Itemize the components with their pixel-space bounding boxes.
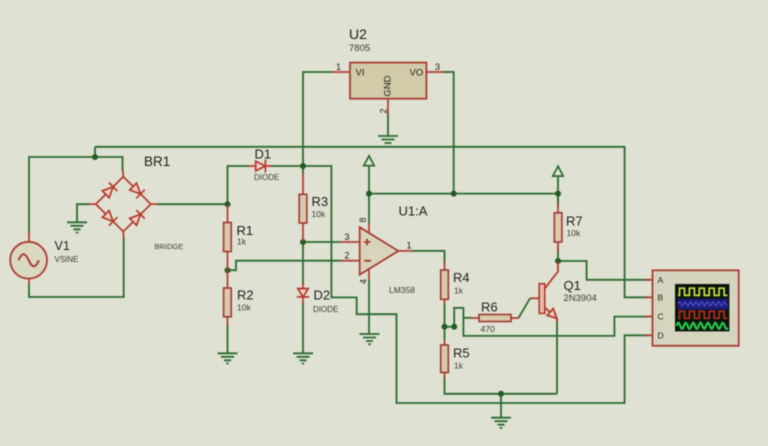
wire D rail riser [624, 335, 626, 404]
wire R3 top stub [302, 166, 304, 175]
wire ground stem bottom [500, 394, 502, 418]
diode D2 [297, 283, 309, 304]
svg-text:470: 470 [481, 324, 495, 334]
resistor R4 [441, 262, 449, 304]
wire column up to U2 VI [303, 72, 333, 166]
wire node pair link [445, 326, 455, 328]
wire to scope B pin [624, 296, 650, 298]
svg-text:BR1: BR1 [144, 154, 170, 169]
wire D1 cathode to column node [272, 165, 304, 167]
ground bottom rail [491, 418, 511, 428]
svg-text:R2: R2 [237, 288, 254, 303]
resistor R2 [224, 271, 232, 326]
resistor R7 [554, 203, 562, 252]
svg-text:2: 2 [379, 108, 389, 113]
ground D2 [293, 353, 313, 363]
svg-text:VSINE: VSINE [55, 255, 79, 264]
transistor Q1 [530, 262, 558, 323]
scope trace A yellow [678, 288, 728, 295]
wire sense step 3 [356, 313, 397, 315]
wire opamp pin8 riser [368, 194, 370, 223]
svg-text:R7: R7 [566, 213, 583, 228]
power arrow left [364, 156, 374, 166]
bridge diode top-left [101, 183, 117, 199]
wire main unregulated rail [95, 146, 625, 148]
wire bridge right to R1 node [157, 203, 228, 205]
wire hook to R6 [463, 317, 471, 319]
scope screen [675, 284, 729, 331]
node V1-rail junction [92, 154, 98, 160]
svg-text:10k: 10k [312, 209, 326, 219]
wire power arrow stem left [368, 166, 370, 194]
wire bottom D rail [396, 402, 625, 404]
node R7 power junction [555, 191, 561, 197]
wire bridge left to ground [77, 204, 89, 222]
wire bridge bottom riser [123, 238, 125, 298]
wire V1 top vertical [28, 157, 30, 236]
wire opamp output to R4 [412, 251, 445, 263]
wire U2 VO down to rail node [453, 72, 455, 194]
svg-text:VI: VI [356, 68, 365, 79]
svg-text:R5: R5 [453, 345, 470, 360]
wire D1 node to sense drop [302, 165, 331, 167]
svg-text:BRIDGE: BRIDGE [155, 242, 184, 251]
svg-text:U1:A: U1:A [399, 204, 428, 219]
wire sense step 2 [356, 297, 358, 315]
wire power rail y194 [369, 193, 558, 195]
wire hook down to C rail [462, 317, 464, 336]
wire collector node to scope A [558, 261, 650, 280]
wire R4 bottom to node [444, 303, 446, 327]
svg-text:1: 1 [336, 62, 341, 72]
svg-text:R3: R3 [312, 194, 329, 209]
wire R1 R2 node to opamp pin2 jog [228, 261, 341, 271]
svg-text:GND: GND [383, 75, 394, 96]
svg-text:DIODE: DIODE [313, 305, 338, 314]
node U2 VO rail junction [451, 191, 457, 197]
wire R2 bottom [227, 325, 229, 353]
svg-text:C: C [658, 311, 664, 321]
bridge diode top-right [129, 182, 145, 198]
wire C rail [463, 335, 615, 337]
svg-text:2N3904: 2N3904 [564, 293, 597, 304]
svg-text:DIODE: DIODE [254, 173, 279, 182]
wire C rail riser [613, 317, 615, 337]
voltage source V1 [10, 232, 47, 285]
wire to scope C pin [614, 316, 651, 318]
bridge diode bottom-right [129, 210, 145, 226]
diode D1 [248, 160, 272, 173]
wire power arrow stem right [557, 176, 559, 194]
wire junction riser to main rail [94, 147, 96, 158]
ground U2 pin2 [378, 136, 398, 143]
svg-text:8: 8 [358, 217, 368, 222]
node R4-R5 junction [442, 324, 448, 330]
svg-text:2: 2 [345, 251, 350, 261]
svg-text:LM358: LM358 [389, 285, 415, 295]
oscilloscope [645, 270, 739, 346]
wire V1 bottom horizontal [28, 296, 124, 298]
wire D2 top [302, 242, 304, 284]
wire hook up [454, 308, 463, 327]
resistor R6 [471, 315, 519, 322]
wire R7 top stub [557, 194, 559, 204]
regulator U2 7805 [333, 63, 445, 114]
ground R2 [218, 353, 238, 363]
svg-text:1: 1 [407, 241, 412, 251]
resistor R1 [224, 205, 232, 270]
svg-text:1k: 1k [454, 285, 464, 295]
wire V1 top horizontal to bridge [28, 156, 122, 158]
svg-text:10k: 10k [567, 228, 581, 238]
svg-text:4: 4 [359, 279, 369, 284]
resistor R3 [299, 174, 307, 242]
svg-text:3: 3 [435, 62, 440, 72]
scope trace D green [677, 323, 728, 329]
scope trace B blue [678, 302, 727, 306]
node bottom ground junction [498, 391, 504, 397]
wire emitter drop [556, 319, 558, 394]
wire R5 top [444, 327, 446, 340]
bridge diode bottom-left [101, 210, 117, 226]
wire R6 to base diagonal [519, 298, 531, 318]
ground opamp pin4 [360, 334, 380, 344]
wire sense drop vertical [330, 165, 332, 297]
scope trace C red [678, 311, 728, 318]
svg-text:D2: D2 [314, 288, 331, 303]
svg-text:B: B [658, 293, 664, 303]
svg-text:R4: R4 [453, 270, 470, 285]
node bridge-R1 junction [225, 201, 231, 207]
wire to scope D pin [624, 334, 650, 336]
svg-text:Q1: Q1 [564, 278, 581, 293]
wire U2 GND pin lower [387, 112, 389, 136]
svg-text:7805: 7805 [349, 43, 370, 54]
svg-text:U2: U2 [349, 26, 367, 42]
wire V1 bottom vertical [28, 283, 30, 297]
wire R7 bottom to collector node [557, 246, 559, 261]
wire opamp pin4 drop to ground [368, 279, 370, 333]
node D1-R3-U2 junction [300, 163, 306, 169]
svg-text:A: A [658, 275, 664, 285]
svg-text:10k: 10k [237, 302, 251, 312]
svg-text:D: D [658, 331, 664, 341]
svg-text:V1: V1 [55, 239, 70, 253]
wire sense drop to bottom [396, 313, 398, 403]
svg-text:1k: 1k [237, 236, 247, 246]
wire sense step 1 [331, 296, 357, 298]
ground bridge left [67, 222, 87, 232]
node R3-pin3 junction [300, 239, 306, 245]
wire rail down to scope B [624, 146, 626, 297]
svg-text:VO: VO [410, 68, 424, 79]
wire R7 top from rail [557, 194, 559, 209]
wire R3 node to opamp pin3 [303, 241, 340, 243]
svg-text:3: 3 [345, 232, 350, 242]
resistor R5 [441, 339, 449, 379]
wire node A up to D1 [228, 166, 249, 204]
wire U2 VO horizontal [443, 71, 455, 73]
svg-text:1k: 1k [454, 360, 464, 370]
bridge rectifier BR1 [89, 170, 158, 239]
node hook junction [451, 324, 457, 330]
node opamp pin8 power junction [366, 191, 372, 197]
svg-text:R6: R6 [481, 299, 498, 314]
wire D2 bottom [302, 303, 304, 353]
wire bridge top drop [122, 156, 124, 171]
power arrow right [553, 166, 563, 176]
wire R5 bottom to ground rail [445, 377, 558, 394]
node R1-R2 junction [225, 267, 231, 273]
op-amp U1:A [340, 223, 413, 280]
svg-text:D1: D1 [255, 147, 272, 162]
node collector junction [555, 258, 561, 264]
